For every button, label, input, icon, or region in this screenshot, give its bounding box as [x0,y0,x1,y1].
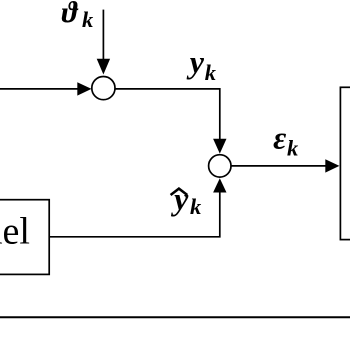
svg-text:k: k [205,60,217,85]
svg-text:ε: ε [273,120,286,156]
svg-text:k: k [82,7,94,32]
svg-text:k: k [190,194,202,219]
svg-text:Model: Model [0,211,30,253]
svg-text:k: k [287,136,299,161]
svg-text:ϑ: ϑ [62,0,79,29]
